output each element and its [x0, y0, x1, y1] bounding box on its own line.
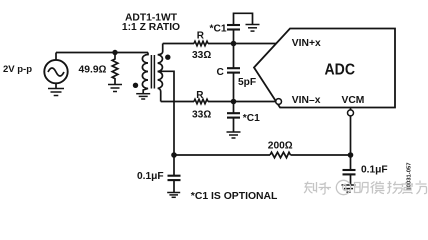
watermark zhihu @mingdeyang	[304, 180, 427, 194]
node A junction	[231, 41, 237, 47]
svg-text:1:1 Z RATIO: 1:1 Z RATIO	[122, 22, 180, 33]
resistor R1 33 ohm (top)	[194, 41, 208, 45]
capacitor C 5pF	[227, 44, 240, 102]
op-amp U1 ADC body	[254, 29, 395, 108]
transformer secondary winding	[158, 44, 163, 102]
transformer core	[150, 55, 152, 89]
phase dot primary	[133, 83, 138, 88]
source VS 2V p-p	[44, 53, 67, 89]
pin bubble VCM	[348, 108, 354, 156]
svg-text:5pF: 5pF	[238, 77, 256, 88]
wire R1 to ADC VIN+x	[208, 43, 278, 45]
svg-text:ADC: ADC	[325, 61, 356, 78]
capacitor C1 top (optional *C1)	[227, 13, 253, 43]
svg-text:33Ω: 33Ω	[192, 109, 211, 120]
svg-text:200Ω: 200Ω	[268, 141, 293, 152]
ground (C3)	[342, 185, 356, 192]
svg-text:*C1: *C1	[210, 23, 227, 34]
node D junction	[171, 152, 177, 158]
wire bottom rail right	[291, 154, 351, 156]
svg-text:0.1μF: 0.1μF	[137, 171, 164, 182]
svg-text:R: R	[196, 90, 204, 101]
svg-text:R: R	[197, 30, 205, 41]
capacitor C1 bottom (optional *C1)	[227, 102, 240, 133]
svg-text:VIN–x: VIN–x	[292, 95, 321, 106]
wire source to transformer	[56, 52, 148, 54]
svg-text:*C1: *C1	[243, 113, 260, 124]
node E junction	[348, 152, 354, 158]
svg-text:2V p-p: 2V p-p	[3, 64, 32, 75]
phase dot secondary	[165, 55, 170, 60]
wire secondary center tap	[158, 71, 174, 155]
ground (C2)	[167, 193, 180, 198]
svg-text:*C1 IS OPTIONAL: *C1 IS OPTIONAL	[191, 191, 278, 202]
node B junction	[231, 99, 237, 105]
ground (C1 top)	[246, 25, 260, 32]
ground (49.9 ohm)	[108, 85, 122, 92]
svg-text:49.9Ω: 49.9Ω	[79, 64, 107, 75]
pin bubble VIN-x	[276, 99, 282, 105]
svg-text:0.1μF: 0.1μF	[361, 165, 388, 176]
node above 49.9 ohm	[112, 50, 117, 55]
ground (source)	[48, 89, 64, 96]
svg-text:VCM: VCM	[342, 95, 365, 106]
wire secondary bottom to R2	[161, 101, 194, 103]
transformer T1 ADT1-1WT primary winding	[142, 53, 148, 94]
wire bottom rail left	[174, 154, 270, 156]
capacitor C3 0.1uF (right)	[343, 155, 356, 185]
ground (transformer primary)	[136, 94, 150, 99]
svg-text:VIN+x: VIN+x	[292, 38, 321, 49]
svg-text:C: C	[217, 67, 225, 78]
ground (C1 bottom)	[227, 132, 241, 138]
wire secondary top to R1	[163, 43, 194, 45]
capacitor C2 0.1uF (left)	[168, 155, 181, 192]
wire R2 to ADC VIN-x	[208, 101, 276, 103]
resistor 49.9 ohm (vertical)	[112, 53, 118, 85]
resistor R3 200 ohm	[270, 152, 291, 157]
resistor R2 33 ohm (bottom)	[194, 99, 208, 103]
svg-text:33Ω: 33Ω	[192, 50, 211, 61]
